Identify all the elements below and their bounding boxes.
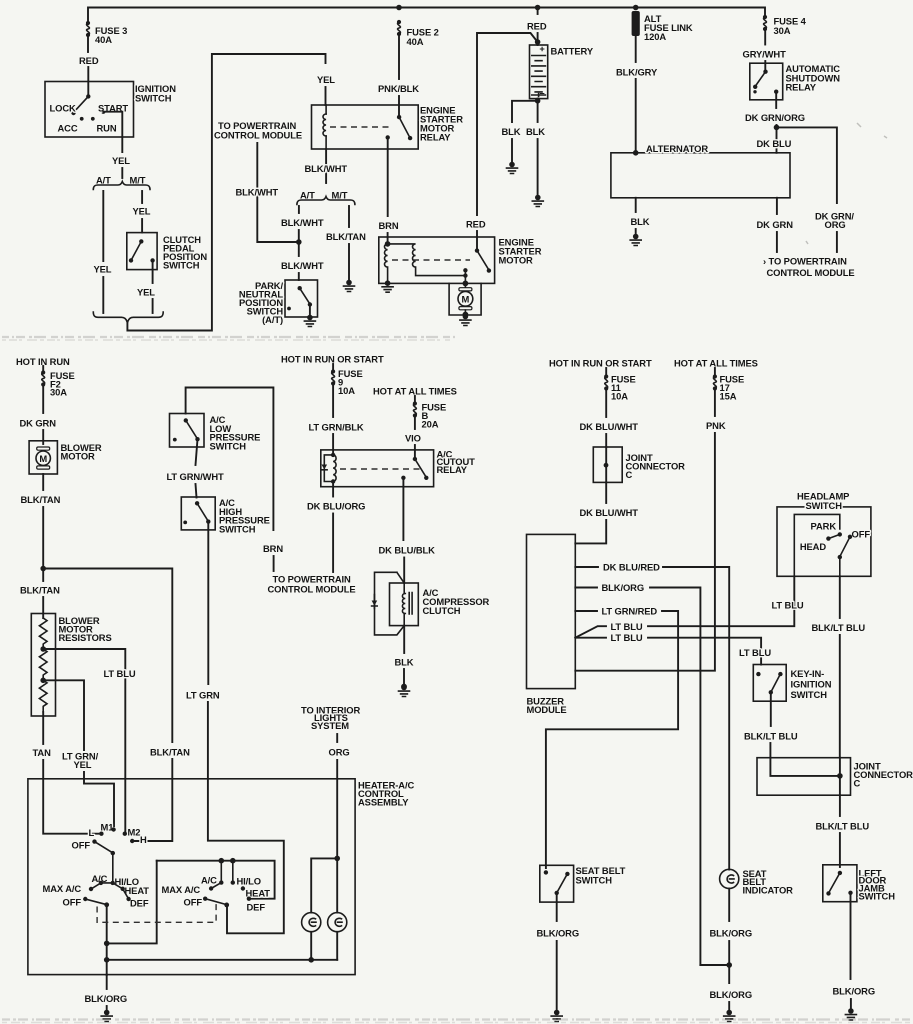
wire BLK/LT BLU: joint connector to jamb switch — [839, 795, 841, 816]
dashed mechanical link between mode switches — [97, 902, 216, 923]
svg-text:CONTROL MODULE: CONTROL MODULE — [268, 584, 356, 595]
svg-text:OFF: OFF — [63, 897, 82, 908]
wire YEL: clutch switch output — [152, 262, 154, 283]
battery — [530, 45, 548, 99]
svg-text:L: L — [89, 827, 95, 838]
illumination lamp 1 — [302, 913, 321, 932]
wire: low pressure switch to BRN/PCM — [186, 388, 274, 531]
svg-text:PNK/BLK: PNK/BLK — [378, 83, 419, 94]
svg-text:RED: RED — [466, 219, 486, 230]
svg-text:SWITCH: SWITCH — [210, 440, 247, 451]
wire PNK: fuse 17 to buzzer — [714, 389, 716, 416]
internal ground bus — [107, 959, 338, 961]
wire BLK/WHT: PCM to park/neutral junction — [257, 143, 298, 242]
wire LT BLU: tap1 to heater M2 — [43, 649, 125, 834]
wire ORG: interior lights to heater lamps — [336, 734, 338, 742]
svg-text:H: H — [140, 834, 147, 845]
svg-text:PNK: PNK — [706, 420, 726, 431]
node: BLK/ORG junction — [726, 962, 732, 968]
node: alternator input junction — [633, 150, 639, 156]
svg-text:CLUTCH: CLUTCH — [423, 605, 461, 616]
svg-text:120A: 120A — [644, 31, 666, 42]
svg-text:LOCK: LOCK — [50, 103, 76, 114]
a/c cutout relay box — [321, 450, 434, 487]
fuse F2 30A — [42, 366, 44, 372]
wire BLK/TAN: branch to heater H — [43, 569, 172, 743]
svg-text:DK GRN: DK GRN — [20, 418, 57, 429]
wire YEL: A/T column — [102, 191, 104, 261]
clutch pedal position switch — [127, 233, 157, 270]
wire LT GRN/WHT: between pressure switches — [196, 439, 198, 465]
svg-text:INDICATOR: INDICATOR — [743, 885, 794, 896]
svg-text:30A: 30A — [50, 387, 67, 398]
svg-text:OFF: OFF — [72, 840, 91, 851]
svg-text:20A: 20A — [422, 419, 439, 430]
wire BLK: battery negative branch left — [512, 101, 538, 122]
fuse 4 30A — [763, 15, 767, 31]
wire BLK/WHT: A/T column to park/neutral — [298, 206, 300, 213]
svg-text:RELAY: RELAY — [786, 82, 817, 93]
svg-text:BLK/TAN: BLK/TAN — [21, 494, 61, 505]
svg-text:SWITCH: SWITCH — [135, 93, 172, 104]
buzzer module box — [527, 534, 576, 688]
svg-text:M/T: M/T — [332, 190, 348, 201]
svg-text:LT BLU: LT BLU — [104, 668, 136, 679]
wire BLK/TAN: M/T column to ground — [348, 206, 350, 227]
svg-text:RESISTORS: RESISTORS — [59, 632, 112, 643]
svg-text:BLK: BLK — [395, 657, 414, 668]
ground: indicator/buzzer BLK/ORG — [724, 1010, 735, 1022]
svg-text:RELAY: RELAY — [437, 464, 468, 475]
joint connector C (lower) — [757, 758, 851, 796]
svg-text:DEF: DEF — [247, 902, 266, 913]
svg-text:SWITCH: SWITCH — [219, 523, 256, 534]
svg-text:BLK/LT BLU: BLK/LT BLU — [744, 731, 798, 742]
svg-text:BLK/ORG: BLK/ORG — [602, 582, 645, 593]
svg-text:M1: M1 — [101, 822, 114, 833]
starter hold-in coil — [388, 244, 464, 276]
svg-text:HEAD: HEAD — [800, 541, 826, 552]
wire DK GRN/ORG: relay output — [775, 92, 777, 108]
svg-text:SWITCH: SWITCH — [163, 260, 200, 271]
starter motor housing — [449, 283, 481, 315]
a/c compressor clutch — [390, 583, 419, 626]
svg-text:SWITCH: SWITCH — [576, 875, 613, 886]
wire VIO — [414, 416, 416, 429]
svg-text:C: C — [854, 778, 861, 789]
wire BLK/LT BLU: key-in to joint connector — [770, 694, 772, 726]
wire LT GRN: high pressure switch to heater — [207, 522, 209, 684]
svg-text:BLK/WHT: BLK/WHT — [281, 217, 324, 228]
fuse 2 40A — [397, 20, 401, 36]
resistor element 1 — [39, 618, 47, 649]
svg-text:DK GRN/ORG: DK GRN/ORG — [745, 112, 805, 123]
svg-text:GRY/WHT: GRY/WHT — [743, 49, 787, 60]
svg-text:YEL: YEL — [74, 759, 92, 770]
wire RED: fuse3 to ignition switch — [87, 36, 89, 52]
svg-text:ALTERNATOR: ALTERNATOR — [646, 143, 708, 154]
svg-text:YEL: YEL — [317, 74, 335, 85]
svg-text:DEF: DEF — [130, 898, 149, 909]
node: battery tap junction — [535, 5, 541, 11]
svg-text:HEAT: HEAT — [125, 885, 150, 896]
node: DK GRN/ORG - DK BLU junction — [774, 125, 780, 131]
svg-text:BLK: BLK — [526, 126, 545, 137]
svg-text:BLK/TAN: BLK/TAN — [150, 747, 190, 758]
svg-text:BLK/GRY: BLK/GRY — [616, 67, 658, 78]
mode switch 2 terminal bus — [157, 861, 275, 899]
node: battery positive junction — [535, 39, 541, 45]
svg-text:OFF: OFF — [852, 529, 871, 540]
svg-text:LT GRN/WHT: LT GRN/WHT — [167, 471, 225, 482]
wire: park/neutral to ground — [309, 305, 311, 316]
cutout relay mech link (dashed) — [340, 468, 424, 470]
wire GRY/WHT — [764, 30, 766, 45]
ignition switch lever LOCK-START — [86, 94, 90, 98]
svg-text:M: M — [39, 453, 47, 464]
svg-text:RUN: RUN — [97, 123, 117, 134]
svg-text:10A: 10A — [338, 385, 355, 396]
svg-text:ORG: ORG — [329, 747, 350, 758]
svg-text:› TO POWERTRAIN: › TO POWERTRAIN — [763, 256, 847, 267]
svg-text:BLK/WHT: BLK/WHT — [281, 260, 324, 271]
resistor element 3 — [39, 680, 47, 712]
wire YEL: M/T column to clutch switch — [141, 191, 143, 203]
svg-text:BATTERY: BATTERY — [551, 46, 594, 57]
wire BLK/ORG: buzzer pin — [575, 587, 597, 589]
heater-a/c control assembly box — [28, 779, 355, 975]
wire BLK/WHT: relay coil output to A/T-M/T brace — [325, 149, 327, 183]
svg-text:SYSTEM: SYSTEM — [311, 720, 349, 731]
engine starter motor box — [379, 237, 495, 283]
wire TAN: resistor bottom to heater L — [42, 712, 44, 744]
brace lower joining A/T and M/T — [93, 312, 163, 323]
left door jamb switch box — [823, 865, 857, 902]
seat belt indicator lamp — [720, 869, 739, 888]
svg-text:RED: RED — [527, 21, 547, 32]
ground: starter solenoid coil — [382, 280, 393, 292]
node: starter solenoid junction — [385, 241, 391, 247]
svg-text:CONNECTOR: CONNECTOR — [854, 769, 913, 780]
svg-text:LT GRN/BLK: LT GRN/BLK — [309, 422, 364, 433]
svg-text:DK BLU/ORG: DK BLU/ORG — [307, 501, 365, 512]
resistor element 2 — [39, 649, 47, 680]
svg-text:HI/LO: HI/LO — [237, 876, 262, 887]
svg-text:VIO: VIO — [405, 433, 421, 444]
svg-text:IGNITION: IGNITION — [791, 679, 832, 690]
a/c high pressure switch box — [181, 497, 215, 530]
svg-text:M/T: M/T — [130, 175, 146, 186]
wire DK BLU/WHT lower into buzzer — [605, 482, 607, 503]
svg-text:YEL: YEL — [133, 206, 151, 217]
joint connector C (upper) — [593, 447, 622, 482]
svg-text:BLK/ORG: BLK/ORG — [537, 928, 580, 939]
fuse 17 15A — [714, 368, 716, 376]
svg-text:LT BLU: LT BLU — [611, 632, 643, 643]
svg-text:SWITCH: SWITCH — [806, 500, 843, 511]
svg-text:ACC: ACC — [58, 123, 78, 134]
svg-text:BRN: BRN — [263, 543, 283, 554]
ground: right battery BLK — [532, 195, 543, 207]
wire LT GRN/RED: buzzer to seat belt switch — [575, 610, 597, 612]
wire DK BLU/RED: buzzer to seat belt indicator — [575, 566, 598, 568]
node: BLK/TAN junction — [40, 566, 46, 572]
wire BLK/TAN: blower motor down — [42, 474, 44, 490]
wire BLK/TAN: junction to resistors — [42, 569, 44, 582]
wire BLK/ORG: heater to ground — [106, 975, 108, 989]
wire BLK/ORG: jamb switch to ground — [850, 893, 852, 979]
svg-text:DK BLU/WHT: DK BLU/WHT — [580, 421, 639, 432]
wire DK BLU/BLK: relay switch to clutch — [402, 478, 404, 540]
svg-text:CONTROL MODULE: CONTROL MODULE — [767, 267, 855, 278]
svg-text:HOT AT ALL TIMES: HOT AT ALL TIMES — [674, 358, 758, 369]
wire RED: battery to starter motor switch — [477, 33, 538, 215]
svg-text:MAX A/C: MAX A/C — [162, 884, 201, 895]
svg-text:BLK: BLK — [502, 126, 521, 137]
fuse 3 40A — [86, 21, 90, 37]
svg-text:DK GRN: DK GRN — [757, 219, 794, 230]
blower motor box — [29, 441, 57, 474]
wire BLK/LT BLU: headlamp OFF to joint connector — [839, 576, 841, 618]
svg-text:A/C: A/C — [201, 875, 217, 886]
fuse 11 10A — [605, 368, 607, 376]
wire PNK/BLK: fuse2 to relay — [398, 35, 400, 79]
starter motor M — [459, 288, 472, 291]
fuse 9 10A — [332, 364, 334, 371]
svg-text:BLK/ORG: BLK/ORG — [710, 928, 753, 939]
starter mech link (dashed) — [392, 259, 470, 261]
wire BLK/ORG: seat belt switch to ground — [556, 894, 558, 921]
svg-text:LT BLU: LT BLU — [611, 621, 643, 632]
node: fuse2 tap junction — [396, 5, 402, 11]
svg-text:15A: 15A — [720, 391, 737, 402]
relay switch contacts — [397, 115, 401, 119]
svg-text:LT GRN/RED: LT GRN/RED — [602, 606, 658, 617]
mode switch 1 off wiper — [83, 897, 87, 901]
wire: motor to ground — [464, 310, 466, 314]
wire LT BLU fork: buzzer pin — [575, 626, 606, 638]
svg-text:KEY-IN-: KEY-IN- — [791, 668, 825, 679]
svg-text:BLK/WHT: BLK/WHT — [236, 187, 279, 198]
svg-text:BLK: BLK — [631, 216, 650, 227]
alternator box — [611, 153, 790, 198]
headlamp contacts — [838, 532, 842, 536]
node: HI/LO tap — [230, 858, 236, 864]
a/c low pressure switch box — [170, 414, 205, 448]
svg-text:ORG: ORG — [825, 219, 846, 230]
cutout relay switch — [413, 457, 417, 461]
wire BLK: alternator to ground — [635, 198, 637, 212]
svg-text:DK BLU/RED: DK BLU/RED — [603, 562, 660, 573]
node: lamp bus junction — [308, 957, 314, 963]
svg-text:DK BLU/WHT: DK BLU/WHT — [580, 507, 639, 518]
svg-text:OFF: OFF — [184, 897, 203, 908]
svg-text:A/T: A/T — [300, 190, 315, 201]
fuse B 20A — [414, 396, 416, 403]
svg-text:LT BLU: LT BLU — [772, 600, 804, 611]
svg-text:SWITCH: SWITCH — [791, 689, 828, 700]
wire BLK/GRY: fuse link to alternator — [635, 36, 637, 62]
wire DK GRN/ORG: branch to PCM — [777, 127, 837, 203]
svg-text:40A: 40A — [407, 36, 424, 47]
svg-text:BLK/TAN: BLK/TAN — [326, 231, 366, 242]
mode switch 2 off wiper — [203, 897, 207, 901]
wire RED: bus to battery — [537, 8, 539, 15]
svg-text:M: M — [462, 294, 470, 305]
svg-text:M2: M2 — [128, 827, 141, 838]
node: resistor tap 2 — [40, 678, 46, 684]
svg-text:BLK/LT BLU: BLK/LT BLU — [816, 821, 870, 832]
svg-text:TAN: TAN — [33, 747, 52, 758]
wire DK GRN: alternator to PCM — [776, 198, 778, 214]
cutout relay coil with clamp diode — [331, 453, 335, 457]
node: battery negative junction — [535, 98, 541, 104]
svg-text:BLK/LT BLU: BLK/LT BLU — [812, 622, 866, 633]
svg-text:BRN: BRN — [379, 220, 399, 231]
svg-text:BLK/WHT: BLK/WHT — [305, 163, 348, 174]
park/neutral position switch box — [285, 280, 318, 317]
svg-text:ASSEMBLY: ASSEMBLY — [358, 797, 409, 808]
wire: main battery feed bus — [88, 8, 765, 23]
starter switch contacts — [475, 248, 479, 252]
svg-text:DK BLU/BLK: DK BLU/BLK — [379, 545, 436, 556]
svg-text:YEL: YEL — [137, 287, 155, 298]
automatic shutdown relay box — [750, 63, 783, 100]
svg-text:DK BLU: DK BLU — [757, 138, 792, 149]
wire DK GRN: fuse to blower motor — [42, 385, 44, 413]
seat belt switch box — [540, 865, 574, 902]
headlamp switch box — [777, 507, 871, 576]
svg-text:HOT IN RUN OR START: HOT IN RUN OR START — [549, 358, 652, 369]
svg-text:PARK: PARK — [811, 521, 837, 532]
svg-text:CONNECTOR: CONNECTOR — [626, 461, 686, 472]
svg-text:10A: 10A — [611, 391, 628, 402]
svg-text:MOTOR: MOTOR — [61, 451, 96, 462]
clutch clamp diode loop — [375, 572, 405, 635]
relay coil — [325, 105, 327, 114]
wire BLK/ORG: indicator down — [728, 889, 730, 922]
ground: compressor clutch — [401, 684, 407, 690]
svg-text:LT GRN: LT GRN — [186, 690, 220, 701]
svg-text:BLK/ORG: BLK/ORG — [833, 986, 876, 997]
node: A/C tap — [219, 858, 225, 864]
ground: jamb switch — [845, 1008, 856, 1020]
svg-text:LT BLU: LT BLU — [739, 647, 771, 658]
ground: M/T BLK/TAN — [344, 280, 355, 292]
node: resistor tap 1 — [40, 646, 46, 652]
svg-text:(A/T): (A/T) — [262, 314, 283, 325]
svg-text:HOT AT ALL TIMES: HOT AT ALL TIMES — [373, 386, 457, 397]
wire BLK: clutch to ground — [403, 626, 405, 653]
ignition switch box — [45, 82, 134, 138]
ground: heater assembly — [101, 1010, 112, 1022]
wire DK BLU/WHT upper — [605, 389, 607, 417]
clutch coil — [403, 583, 405, 594]
svg-text:40A: 40A — [95, 34, 112, 45]
wire LT GRN/YEL: tap2 to heater M1 — [43, 680, 84, 750]
svg-text:30A: 30A — [774, 25, 791, 36]
ground: seat belt switch — [551, 1010, 562, 1022]
svg-text:RELAY: RELAY — [420, 132, 451, 143]
svg-text:YEL: YEL — [94, 264, 112, 275]
key-in-ignition switch box — [753, 665, 786, 702]
node: alt fuse link tap junction — [633, 5, 639, 11]
ground: alternator BLK — [630, 234, 641, 246]
node: ORG split to lamps — [334, 856, 340, 862]
wire: mode1 wiper to mode2 terminal bus — [107, 861, 157, 944]
blower switch wiper — [95, 842, 113, 853]
node: BLK/WHT junction — [296, 239, 302, 245]
svg-text:BLK/ORG: BLK/ORG — [85, 993, 128, 1004]
blower motor resistors box — [31, 614, 55, 717]
starter pull-in coil — [385, 244, 388, 281]
ground: park/neutral switch — [304, 315, 315, 327]
svg-text:RED: RED — [79, 55, 99, 66]
svg-text:A/T: A/T — [96, 175, 111, 186]
ground: left battery BLK — [507, 162, 518, 174]
wire: brace output to powertrain control module riser — [127, 54, 325, 331]
relay mechanical link (dashed) — [330, 126, 392, 128]
svg-text:MODULE: MODULE — [527, 704, 567, 715]
svg-text:CONTROL MODULE: CONTROL MODULE — [214, 130, 302, 141]
svg-text:SWITCH: SWITCH — [859, 891, 896, 902]
wire YEL: START contact down — [103, 112, 122, 152]
illumination lamp 2 — [328, 913, 347, 932]
wire LT GRN/BLK — [332, 384, 334, 417]
svg-text:HOT IN RUN OR START: HOT IN RUN OR START — [281, 354, 384, 365]
svg-text:YEL: YEL — [112, 155, 130, 166]
blower motor M — [37, 447, 50, 450]
svg-text:MOTOR: MOTOR — [499, 255, 534, 266]
svg-text:BLK/TAN: BLK/TAN — [20, 585, 60, 596]
svg-text:MAX A/C: MAX A/C — [43, 883, 82, 894]
engine starter motor relay box — [312, 105, 419, 149]
svg-text:BLK/ORG: BLK/ORG — [710, 989, 753, 1000]
node: mode1 output junctions — [104, 941, 110, 947]
wire DK BLU/ORG: coil to PCM — [332, 482, 334, 497]
svg-text:C: C — [626, 469, 633, 480]
brace A/T-M/T (relay output) — [297, 197, 355, 205]
wire: lamps to internal ground bus — [311, 932, 337, 960]
wire BRN: relay contact to starter — [387, 137, 389, 216]
alt fuse link 120A — [632, 11, 640, 36]
